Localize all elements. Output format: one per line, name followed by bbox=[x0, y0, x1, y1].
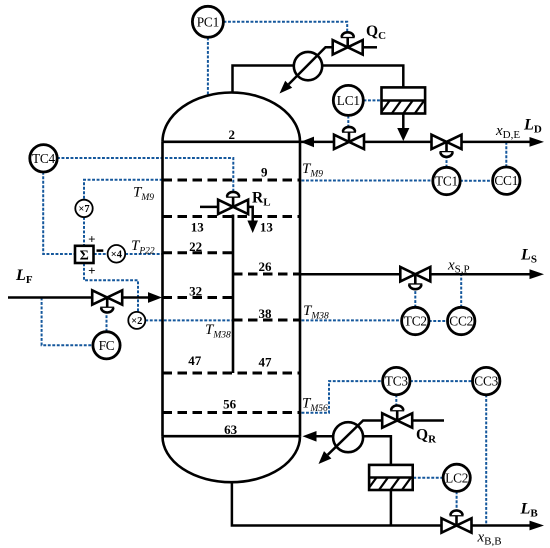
svg-text:2: 2 bbox=[229, 127, 236, 142]
svg-text:TC4: TC4 bbox=[32, 151, 56, 166]
svg-text:×7: ×7 bbox=[78, 204, 89, 215]
svg-text:47: 47 bbox=[188, 353, 202, 368]
svg-text:13: 13 bbox=[191, 219, 205, 234]
svg-text:+: + bbox=[88, 263, 95, 278]
svg-text:TC3: TC3 bbox=[385, 374, 409, 389]
svg-text:TC2: TC2 bbox=[404, 314, 427, 329]
svg-text:+: + bbox=[88, 232, 95, 247]
svg-text:13: 13 bbox=[260, 219, 274, 234]
svg-text:38: 38 bbox=[259, 306, 273, 321]
svg-text:PC1: PC1 bbox=[197, 14, 219, 29]
svg-text:CC1: CC1 bbox=[494, 173, 518, 188]
svg-text:26: 26 bbox=[259, 259, 273, 274]
svg-text:47: 47 bbox=[259, 355, 273, 370]
svg-text:Σ: Σ bbox=[80, 249, 89, 264]
svg-text:LC1: LC1 bbox=[337, 93, 360, 108]
svg-text:TC1: TC1 bbox=[435, 174, 458, 189]
svg-text:32: 32 bbox=[189, 284, 202, 299]
svg-text:22: 22 bbox=[189, 239, 202, 254]
svg-text:×2: ×2 bbox=[131, 316, 142, 327]
svg-text:9: 9 bbox=[261, 164, 268, 179]
svg-text:63: 63 bbox=[224, 422, 238, 437]
svg-text:×4: ×4 bbox=[111, 250, 123, 261]
svg-text:LC2: LC2 bbox=[445, 470, 468, 485]
svg-text:56: 56 bbox=[223, 397, 237, 412]
svg-text:CC3: CC3 bbox=[474, 374, 498, 389]
svg-text:CC2: CC2 bbox=[449, 314, 473, 329]
svg-text:FC: FC bbox=[99, 338, 115, 353]
